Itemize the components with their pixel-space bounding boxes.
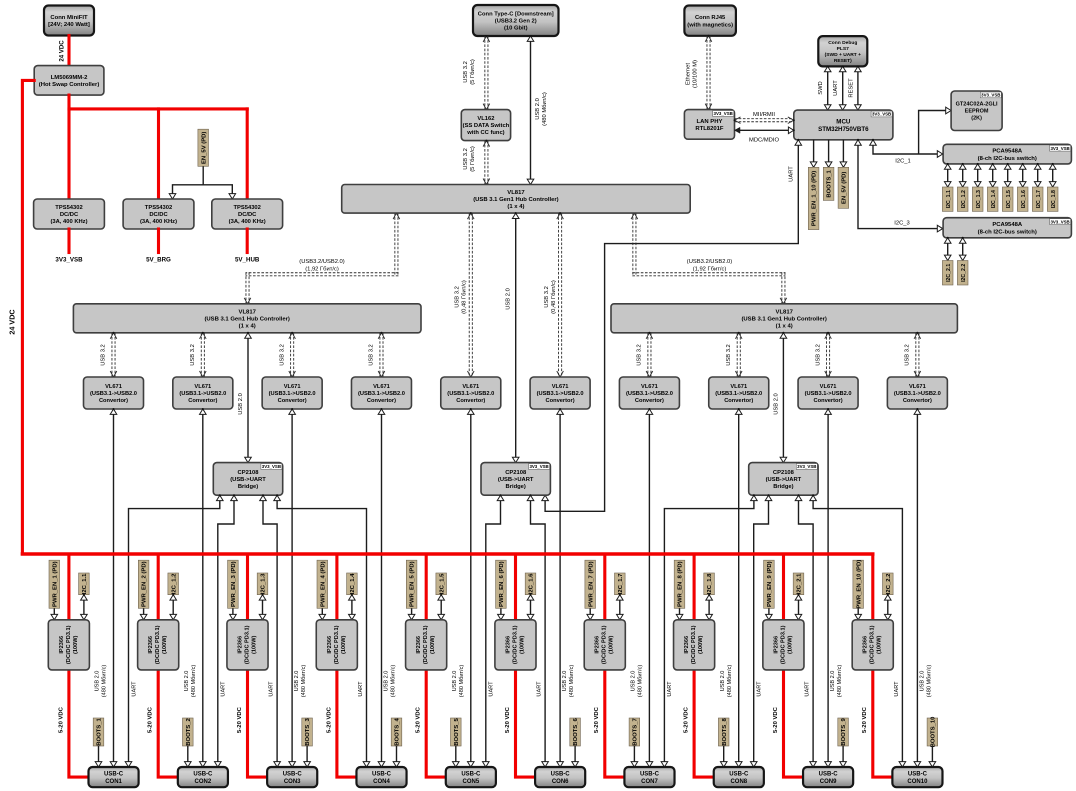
svg-text:I2C_2.2: I2C_2.2 <box>886 573 892 594</box>
svg-text:5-20 VDC: 5-20 VDC <box>237 706 243 733</box>
svg-text:5-20 VDC: 5-20 VDC <box>773 706 779 733</box>
svg-text:USB 3.2: USB 3.2 <box>190 344 196 366</box>
svg-text:(480 Мбит/с): (480 Мбит/с) <box>927 665 933 698</box>
svg-text:BOOTS_2: BOOTS_2 <box>186 718 192 746</box>
wire USB2.0 VL671 U2 to CON2 <box>200 408 207 768</box>
svg-text:(480 Мбит/с): (480 Мбит/с) <box>191 665 197 698</box>
svg-text:(USB->UART: (USB->UART <box>766 477 802 483</box>
svg-text:(USB3.1->USB2.0: (USB3.1->USB2.0 <box>90 391 137 397</box>
wire 5V_BRG output <box>157 229 160 253</box>
connector USB-C CON2 <box>178 767 228 787</box>
svg-text:3V3_VSB: 3V3_VSB <box>872 112 891 117</box>
svg-text:VL671: VL671 <box>820 384 837 390</box>
svg-text:USB 3.2: USB 3.2 <box>455 286 461 308</box>
net label BOOTS_1 <box>93 718 104 746</box>
EEPROM GT24C02A-2GLI <box>951 91 1002 131</box>
wire USB3.2 Type-C to VL162 <box>483 35 490 111</box>
wire UART6 CP2108 U2 to CON6 <box>527 494 548 768</box>
svg-text:TPS54302: TPS54302 <box>55 205 82 211</box>
net label I2C_1.7 (port) <box>615 573 626 595</box>
svg-text:I2C_1.4: I2C_1.4 <box>350 573 356 594</box>
connector USB-C CON10 <box>892 767 942 787</box>
wire I2C_1.3 to switch <box>974 163 981 188</box>
wire 24VDC drop to TPS54302 U1 <box>67 109 70 199</box>
net label BOOTS_4 <box>391 718 402 746</box>
net label PWR_EN_1_10 (PD) <box>808 167 819 229</box>
label USB 3.2 port 1 <box>101 344 107 366</box>
svg-text:(0,48 Гбит/с): (0,48 Гбит/с) <box>462 280 468 314</box>
label MDC/MDIO <box>749 138 779 144</box>
net label PWR_EN_1 (PD) <box>49 560 60 608</box>
svg-text:TPS54302: TPS54302 <box>233 205 260 211</box>
USB converter VL671 U5 <box>441 377 501 409</box>
svg-text:VL817: VL817 <box>239 309 257 315</box>
svg-text:USB 3.2: USB 3.2 <box>101 344 107 366</box>
svg-text:(480 Мбит/с): (480 Мбит/с) <box>727 665 733 698</box>
wire I2C_2.2 to IP2366 <box>884 594 891 621</box>
svg-text:USB 3.2: USB 3.2 <box>726 344 732 366</box>
connector USB-C CON6 <box>535 767 585 787</box>
wire UART3 CP2108 U1 to CON3 <box>260 494 281 768</box>
svg-text:IP2366: IP2366 <box>595 636 601 654</box>
svg-text:(480 Мбит/с): (480 Мбит/с) <box>102 665 108 698</box>
label link to left hub <box>299 259 344 272</box>
svg-text:(DC/DC PD3.1): (DC/DC PD3.1) <box>155 625 161 664</box>
PD controller IP2366 U8 <box>674 620 715 670</box>
net label BOOTS_7 <box>629 718 640 746</box>
svg-text:CP2108: CP2108 <box>238 470 260 476</box>
SS data switch VL162 <box>461 110 510 141</box>
DC/DC converter TPS54302 U2 <box>123 199 194 229</box>
label 24 VDC (top) <box>59 40 66 62</box>
wire UART2 CP2108 U1 to CON2 <box>215 494 238 768</box>
svg-text:I2C_1.2: I2C_1.2 <box>961 190 967 208</box>
wire I2C_1 MCU to PCA9548A U1 <box>870 139 944 158</box>
wire Ethernet RJ45 to LAN PHY <box>705 35 712 111</box>
wire 5-20VDC through IP2366 U5 to CON5 <box>426 554 446 777</box>
svg-text:USB 2.0: USB 2.0 <box>830 671 836 692</box>
USB hub VL817 (top) <box>342 185 691 214</box>
svg-text:(8-ch I2C-bus switch): (8-ch I2C-bus switch) <box>978 230 1037 236</box>
wire USB2.0 Type-C to top hub <box>527 35 534 186</box>
svg-text:5V_HUB: 5V_HUB <box>235 257 260 264</box>
net label I2C_1.6 (switch) <box>1017 187 1028 211</box>
net label BOOTS_8 <box>718 718 729 746</box>
svg-text:(DC/DC PD3.1): (DC/DC PD3.1) <box>423 625 429 664</box>
wire 24VDC drop to TPS54302 U2 <box>157 109 160 199</box>
wire LM5069 to DC/DC converters <box>69 95 247 109</box>
svg-text:(1,92 Гбит/с): (1,92 Гбит/с) <box>693 267 727 273</box>
svg-text:(USB3.1->USB2.0: (USB3.1->USB2.0 <box>894 391 941 397</box>
label USB 2.0 480M port 9 <box>830 665 843 698</box>
wire EN_5V stub from label <box>202 166 204 185</box>
svg-text:(100W): (100W) <box>252 635 258 653</box>
net label BOOTS_2 <box>183 718 194 746</box>
connector USB-C CON5 <box>446 767 496 787</box>
wire USB2.0 VL671 U4 to CON4 <box>378 408 385 768</box>
wire I2C_1.8 to switch <box>1049 163 1056 188</box>
svg-text:I2C_1.1: I2C_1.1 <box>946 190 952 208</box>
svg-text:(DC/DC PD3.1): (DC/DC PD3.1) <box>512 625 518 664</box>
svg-text:Convertor): Convertor) <box>367 398 396 404</box>
wire I2C_1.1 to switch <box>944 163 951 188</box>
svg-text:USB 2.0: USB 2.0 <box>238 393 244 415</box>
svg-text:PWR_EN_2 (PD): PWR_EN_2 (PD) <box>142 561 148 607</box>
svg-text:CON6: CON6 <box>552 779 569 785</box>
svg-text:(100W): (100W) <box>430 635 436 653</box>
wire BOOTS_2 to CON2 <box>185 746 192 768</box>
wire PWR_EN_1 to IP2366 <box>51 608 58 621</box>
svg-text:I2C_1.2: I2C_1.2 <box>171 573 177 594</box>
wire I2C_1.6 to switch <box>1019 163 1026 188</box>
svg-text:USB 2.0: USB 2.0 <box>294 671 300 692</box>
wire USB2.0 VL671 U8 to CON8 <box>735 408 742 768</box>
svg-text:5-20 VDC: 5-20 VDC <box>416 706 422 733</box>
label UART port 1 <box>131 681 137 697</box>
svg-text:CON2: CON2 <box>195 779 212 785</box>
wire USB2.0 VL671 U3 to CON3 <box>289 408 296 768</box>
wire 5-20VDC through IP2366 U9 to CON9 <box>784 554 804 777</box>
svg-text:5-20 VDC: 5-20 VDC <box>326 706 332 733</box>
svg-text:(DC/DC PD3.1): (DC/DC PD3.1) <box>334 625 340 664</box>
label 5-20 VDC port 9 <box>773 706 779 733</box>
svg-text:Convertor): Convertor) <box>188 398 217 404</box>
net label I2C_1.3 (port) <box>257 573 268 595</box>
svg-text:(USB 3.1 Gen1 Hub Controller): (USB 3.1 Gen1 Hub Controller) <box>741 316 826 322</box>
svg-text:RESET): RESET) <box>834 58 852 64</box>
svg-text:(100W): (100W) <box>341 635 347 653</box>
wire PWR_EN_3 to IP2366 <box>230 608 237 621</box>
net label EN_5V (PD) (MCU) <box>838 167 849 208</box>
wire UART1 CP2108 U1 to CON1 <box>125 494 223 768</box>
net label 5V_BRG <box>146 257 171 264</box>
wire USB3.2 right hub to VL671 U10 <box>914 332 921 378</box>
wire EN_5V (MCU) <box>840 140 847 169</box>
svg-text:(3A, 400 KHz): (3A, 400 KHz) <box>50 219 87 225</box>
wire BOOTS_8 to CON8 <box>720 746 727 768</box>
svg-text:Convertor): Convertor) <box>635 398 664 404</box>
net label I2C_1.8 (switch) <box>1047 187 1058 211</box>
label UART port 8 <box>757 681 763 697</box>
svg-text:3V3_VSB: 3V3_VSB <box>981 93 1000 98</box>
wire BOOTS_5 to CON5 <box>452 746 459 768</box>
svg-text:SWD: SWD <box>818 81 824 95</box>
net label I2C_1.2 (port) <box>168 573 179 595</box>
svg-text:(USB3.2/USB2.0): (USB3.2/USB2.0) <box>687 259 732 265</box>
wire 5-20VDC through IP2366 U3 to CON3 <box>248 554 268 777</box>
net label PWR_EN_4 (PD) <box>317 560 328 608</box>
svg-text:(1 x 4): (1 x 4) <box>507 204 524 210</box>
connector USB-C CON1 <box>89 767 139 787</box>
svg-text:PCA9548A: PCA9548A <box>992 222 1023 228</box>
svg-text:USB-C: USB-C <box>372 772 392 778</box>
svg-text:Bridge): Bridge) <box>773 484 793 490</box>
svg-text:UART: UART <box>489 681 495 697</box>
svg-text:UART: UART <box>221 681 227 697</box>
svg-text:(480 Мбит/с): (480 Мбит/с) <box>638 665 644 698</box>
svg-text:5-20 VDC: 5-20 VDC <box>684 706 690 733</box>
svg-text:IP2366: IP2366 <box>863 636 869 654</box>
wire 5-20VDC through IP2366 U7 to CON7 <box>605 554 625 777</box>
I2C switch PCA9548A U2 <box>943 218 1071 238</box>
svg-text:(DC/DC PD3.1): (DC/DC PD3.1) <box>66 625 72 664</box>
svg-text:(100W): (100W) <box>609 635 615 653</box>
wire I2C_3 MCU to PCA9548A U2 <box>855 139 944 232</box>
svg-text:BOOTS_5: BOOTS_5 <box>454 718 460 746</box>
label USB 3.2 port 8 <box>726 344 732 366</box>
svg-text:(100W): (100W) <box>787 635 793 653</box>
svg-text:DC/DC: DC/DC <box>60 212 79 218</box>
svg-text:I2C_1.3: I2C_1.3 <box>261 573 267 594</box>
svg-text:(5 Гбит/с): (5 Гбит/с) <box>470 146 476 172</box>
svg-text:(100W): (100W) <box>698 635 704 653</box>
USB hub VL817 (right) <box>611 304 957 333</box>
svg-text:3V3_VSB: 3V3_VSB <box>797 464 816 469</box>
svg-text:CP2108: CP2108 <box>773 470 795 476</box>
svg-text:RESET: RESET <box>848 78 854 98</box>
svg-text:(1 x 4): (1 x 4) <box>239 323 256 329</box>
svg-text:(USB3.1->USB2.0: (USB3.1->USB2.0 <box>626 391 673 397</box>
svg-text:BOOTS_7: BOOTS_7 <box>633 718 639 746</box>
wire I2C_1.2 to switch <box>959 163 966 188</box>
net label 3V3_VSB <box>55 257 83 264</box>
svg-text:STM32H750VBT6: STM32H750VBT6 <box>818 126 869 133</box>
svg-text:IP2366: IP2366 <box>327 636 333 654</box>
net label I2C_2.2 (switch) <box>957 261 968 286</box>
wire RESET <box>855 65 862 111</box>
wire 5-20VDC through IP2366 U2 to CON2 <box>158 554 178 777</box>
label 5-20 VDC port 8 <box>684 706 690 733</box>
svg-text:EN_5V (PD): EN_5V (PD) <box>201 132 207 164</box>
wire BOOTS_3 to CON3 <box>304 746 311 768</box>
label UART port 6 <box>537 681 543 697</box>
wire USB3.2/USB2.0 top hub to right hub <box>631 212 787 305</box>
connector USB-C CON4 <box>356 767 406 787</box>
wire USB3.2 VL162 to top hub <box>483 140 490 186</box>
svg-text:(USB3.1->USB2.0: (USB3.1->USB2.0 <box>715 391 762 397</box>
wire 5-20VDC through IP2366 U4 to CON4 <box>337 554 357 777</box>
svg-text:USB 2.0: USB 2.0 <box>384 671 390 692</box>
svg-text:I2C_1.5: I2C_1.5 <box>439 573 445 594</box>
wire USB2.0 VL671 U5 to CON5 <box>467 408 474 768</box>
svg-text:(2K): (2K) <box>971 116 982 122</box>
net label BOOTS_9 <box>838 718 849 746</box>
svg-text:(SS DATA Switch: (SS DATA Switch <box>463 123 510 129</box>
label USB 2.0 480M port 8 <box>720 665 733 698</box>
svg-text:5-20 VDC: 5-20 VDC <box>58 706 64 733</box>
svg-text:Convertor): Convertor) <box>278 398 307 404</box>
svg-text:USB 2.0: USB 2.0 <box>631 671 637 692</box>
svg-text:IP2366: IP2366 <box>148 636 154 654</box>
net label BOOTS_6 <box>570 718 581 746</box>
wire USB3.2/USB2.0 top hub to left hub <box>244 212 400 305</box>
svg-text:(Hot Swap Controller): (Hot Swap Controller) <box>39 82 100 88</box>
PD controller IP2366 U7 <box>584 620 625 670</box>
svg-text:VL162: VL162 <box>477 116 494 122</box>
svg-text:(USB->UART: (USB->UART <box>230 477 266 483</box>
svg-text:PWR_EN_8 (PD): PWR_EN_8 (PD) <box>678 561 684 607</box>
wire USB3.2 right hub to VL671 U9 <box>825 332 832 378</box>
svg-text:I2C_1.1: I2C_1.1 <box>82 573 88 594</box>
svg-text:CON7: CON7 <box>641 779 658 785</box>
wire I2C_2.2 to switch <box>959 237 966 262</box>
label USB 3.2 port 2 <box>190 344 196 366</box>
svg-text:PLS7: PLS7 <box>837 46 850 52</box>
svg-text:(0,48 Гбит/с): (0,48 Гбит/с) <box>551 280 557 314</box>
svg-text:CON3: CON3 <box>284 779 301 785</box>
label USB 3.2 port 3 <box>279 344 285 366</box>
svg-text:Convertor): Convertor) <box>814 398 843 404</box>
net label PWR_EN_10 (PD) <box>853 560 864 609</box>
label UART (debug) <box>833 80 839 96</box>
wire MDC/MDIO <box>735 127 795 134</box>
MCU STM32H750VBT6 <box>794 110 893 140</box>
label 5-20 VDC port 4 <box>326 706 332 733</box>
svg-text:I2C_2.2: I2C_2.2 <box>961 264 967 282</box>
label USB 2.0 480M port 1 <box>95 665 108 698</box>
svg-text:with CC func): with CC func) <box>466 130 504 136</box>
wire PWR_EN_5 to IP2366 <box>408 608 415 621</box>
label 5-20 VDC port 7 <box>594 706 600 733</box>
svg-text:(DC/DC PD3.1): (DC/DC PD3.1) <box>870 625 876 664</box>
svg-text:PWR_EN_3 (PD): PWR_EN_3 (PD) <box>231 561 237 607</box>
svg-text:I2C_1.5: I2C_1.5 <box>1006 190 1012 208</box>
svg-text:USB-C: USB-C <box>193 772 213 778</box>
wire USB2.0 VL671 U10 to CON10 <box>914 408 921 768</box>
net label BOOTS_5 <box>451 718 462 746</box>
svg-text:I2C_1.7: I2C_1.7 <box>618 573 624 594</box>
label USB 3.2 port 10 <box>905 344 911 366</box>
wire 24VDC left rail <box>22 80 34 554</box>
svg-text:BOOTS_8: BOOTS_8 <box>722 718 728 746</box>
label UART port 5 <box>489 681 495 697</box>
wire 24VDC drop to TPS54302 U3 <box>246 109 249 199</box>
svg-text:BOOTS_4: BOOTS_4 <box>395 718 401 746</box>
net label I2C_1.3 (switch) <box>972 187 983 211</box>
USB converter VL671 U2 <box>173 377 233 409</box>
svg-text:Conn MiniFIT: Conn MiniFIT <box>50 15 88 21</box>
svg-text:(480 Мбит/с): (480 Мбит/с) <box>542 92 548 126</box>
svg-text:(USB3.1->USB2.0: (USB3.1->USB2.0 <box>358 391 405 397</box>
svg-text:(10/100 M): (10/100 M) <box>692 60 698 88</box>
svg-text:(USB3.1->USB2.0: (USB3.1->USB2.0 <box>447 391 494 397</box>
svg-text:USB-C: USB-C <box>640 772 660 778</box>
label USB 2.0 480M port 3 <box>294 665 307 698</box>
svg-text:USB 2.0: USB 2.0 <box>773 393 779 415</box>
label UART port 4 <box>358 681 364 697</box>
svg-text:5-20 VDC: 5-20 VDC <box>505 706 511 733</box>
svg-text:(3A, 400 KHz): (3A, 400 KHz) <box>140 219 177 225</box>
svg-text:I2C_1.6: I2C_1.6 <box>529 573 535 594</box>
svg-text:USB 2.0: USB 2.0 <box>95 671 101 692</box>
svg-text:VL671: VL671 <box>909 384 926 390</box>
svg-text:PWR_EN_4 (PD): PWR_EN_4 (PD) <box>320 561 326 607</box>
svg-text:BOOTS_1: BOOTS_1 <box>97 718 103 746</box>
svg-text:BOOTS_10: BOOTS_10 <box>931 716 937 747</box>
svg-text:(100W): (100W) <box>877 635 883 653</box>
wire PWR_EN_4 to IP2366 <box>319 608 326 621</box>
connector Conn MiniFIT <box>44 6 94 36</box>
wire 3V3_VSB output <box>67 229 70 253</box>
net label BOOTS_1 (MCU) <box>823 167 834 200</box>
net label I2C_1.5 (switch) <box>1002 187 1013 211</box>
svg-text:USB 2.0: USB 2.0 <box>452 671 458 692</box>
label USB 3.2 0,48G port 5 <box>455 280 468 314</box>
svg-text:USB-C: USB-C <box>551 772 571 778</box>
label 5-20 VDC port 5 <box>416 706 422 733</box>
USB converter VL671 U4 <box>351 377 411 409</box>
svg-text:BOOTS_6: BOOTS_6 <box>573 718 579 746</box>
label 5-20 VDC port 6 <box>505 706 511 733</box>
svg-text:UART: UART <box>358 681 364 697</box>
PD controller IP2366 U4 <box>316 620 357 670</box>
svg-text:(DC/DC PD3.1): (DC/DC PD3.1) <box>245 625 251 664</box>
I2C switch PCA9548A U1 <box>943 144 1071 164</box>
wire USB3.2 right hub to VL671 U8 <box>735 332 742 378</box>
wire I2C_1.1 to IP2366 <box>81 594 88 621</box>
USB converter VL671 U1 <box>84 377 144 409</box>
wire 5-20VDC through IP2366 U6 to CON6 <box>516 554 536 777</box>
net label PWR_EN_9 (PD) <box>764 560 775 608</box>
USB converter VL671 U7 <box>619 377 679 409</box>
svg-text:USB 2.0: USB 2.0 <box>920 671 926 692</box>
svg-text:I2C_1: I2C_1 <box>895 159 910 165</box>
svg-text:5V_BRG: 5V_BRG <box>146 257 171 264</box>
svg-text:3V3_VSB: 3V3_VSB <box>55 257 83 264</box>
net label I2C_1.8 (port) <box>704 573 715 595</box>
svg-text:(480 Мбит/с): (480 Мбит/с) <box>391 665 397 698</box>
connector USB-C CON8 <box>714 767 764 787</box>
svg-text:(DC/DC PD3.1): (DC/DC PD3.1) <box>691 625 697 664</box>
net label BOOTS_10 <box>927 716 938 747</box>
connector USB-C CON3 <box>267 767 317 787</box>
connector Conn Type-C Downstream <box>473 5 559 36</box>
wire I2C_1.8 to IP2366 <box>706 594 713 621</box>
USB converter VL671 U10 <box>887 377 947 409</box>
label USB 2.0 (centre) <box>506 288 512 310</box>
wire USB3.2 left hub to VL671 U2 <box>200 332 207 378</box>
svg-text:IP2366: IP2366 <box>59 636 65 654</box>
USB converter VL671 U6 <box>530 377 590 409</box>
svg-text:VL671: VL671 <box>194 384 211 390</box>
label I2C_1 <box>895 159 910 165</box>
wire PWR_EN_6 to IP2366 <box>498 608 505 621</box>
label UART port 2 <box>221 681 227 697</box>
label 5-20 VDC port 1 <box>58 706 64 733</box>
label SWD <box>818 81 824 95</box>
wire 5-20VDC through IP2366 U8 to CON8 <box>694 554 714 777</box>
svg-text:TPS54302: TPS54302 <box>145 205 172 211</box>
label Ethernet 10/100M <box>685 60 698 88</box>
wire USB2.0 left hub to CP2108 U1 <box>245 332 252 464</box>
wire MCU UART to CP2108 U2 <box>542 139 802 512</box>
svg-text:(USB->UART: (USB->UART <box>498 477 534 483</box>
label USB 2.0 (right) <box>773 393 779 415</box>
wire USB2.0 right hub to CP2108 U3 <box>780 332 787 464</box>
svg-text:IP2366: IP2366 <box>238 636 244 654</box>
label USB 2.0 480M port 2 <box>184 665 197 698</box>
label MII/RMII <box>753 112 775 118</box>
svg-text:IP2366: IP2366 <box>416 636 422 654</box>
wire UART9 CP2108 U3 to CON9 <box>795 494 816 768</box>
svg-text:UART: UART <box>894 681 900 697</box>
svg-text:(1,92 Гбит/с): (1,92 Гбит/с) <box>305 267 339 273</box>
svg-text:Convertor): Convertor) <box>903 398 932 404</box>
net label I2C_1.7 (switch) <box>1032 187 1043 211</box>
label 5-20 VDC port 2 <box>148 706 154 733</box>
wire BOOTS_6 to CON6 <box>572 746 579 768</box>
svg-text:USB-C: USB-C <box>819 772 839 778</box>
